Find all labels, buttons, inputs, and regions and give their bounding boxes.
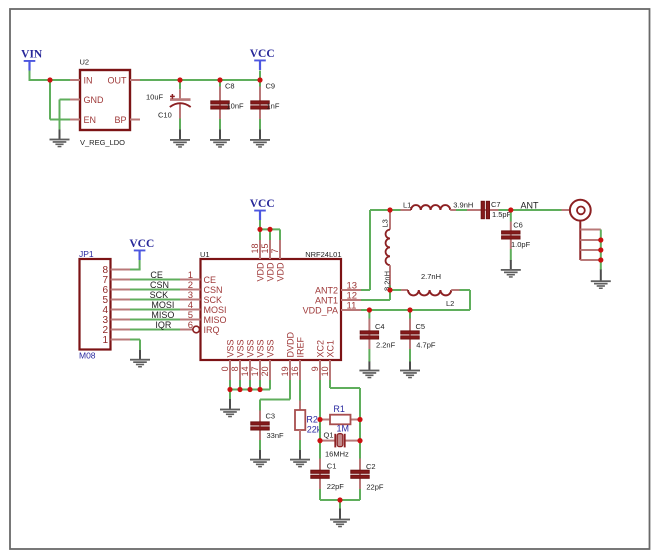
svg-text:R1: R1: [333, 404, 345, 414]
svg-text:CSN: CSN: [204, 285, 223, 295]
svg-text:C2: C2: [366, 462, 376, 471]
svg-text:C7: C7: [491, 200, 501, 209]
svg-text:17: 17: [250, 366, 260, 376]
svg-text:NRF24L01: NRF24L01: [305, 250, 341, 259]
wire IREF to R2: [299, 380, 301, 401]
node shield junction 3: [598, 257, 603, 262]
U1 top pin names VDD: [256, 262, 286, 282]
capacitor C6: [502, 210, 520, 261]
svg-text:3.9nH: 3.9nH: [453, 200, 473, 209]
node L1 L3 junction: [387, 207, 392, 212]
svg-text:IREF: IREF: [296, 336, 306, 357]
svg-text:11: 11: [347, 301, 357, 312]
node ANT junction: [508, 207, 513, 212]
node shield junction 2: [598, 247, 603, 252]
capacitor C10 polarized: [170, 80, 191, 130]
wire net CE: [130, 279, 180, 281]
supply VCC at U1: [250, 198, 275, 220]
svg-text:ANT2: ANT2: [315, 285, 338, 295]
svg-text:C3: C3: [266, 411, 276, 420]
svg-text:CE: CE: [204, 275, 217, 285]
wire VIN to U2.IN: [29, 71, 71, 81]
svg-text:VDD: VDD: [266, 262, 276, 282]
svg-text:MISO: MISO: [204, 315, 227, 325]
svg-text:R2: R2: [306, 415, 318, 425]
svg-text:VDD_PA: VDD_PA: [303, 305, 338, 315]
capacitor C7: [467, 201, 499, 218]
wire net MOSI: [130, 309, 180, 311]
svg-text:22pF: 22pF: [366, 483, 384, 492]
svg-text:22pF: 22pF: [327, 482, 345, 491]
supply VIN: [21, 48, 43, 70]
svg-text:7: 7: [270, 248, 280, 253]
svg-text:VCC: VCC: [250, 198, 275, 210]
svg-text:L3: L3: [381, 219, 390, 227]
capacitor C4: [360, 310, 378, 362]
U1 bottom pin numbers: [220, 366, 330, 376]
U1 right pin numbers: [347, 281, 358, 312]
node VDD_PA junction C5: [407, 307, 412, 312]
svg-text:VIN: VIN: [21, 48, 43, 60]
svg-text:EN: EN: [84, 115, 97, 125]
ground X1: [591, 270, 611, 290]
ground C9: [250, 130, 270, 148]
wire VSS bus: [230, 380, 270, 400]
node shield junction 1: [598, 237, 603, 242]
capacitor C8: [211, 80, 229, 130]
ground JP1: [130, 350, 150, 368]
svg-text:1nF: 1nF: [267, 102, 280, 111]
ground C6: [501, 260, 521, 278]
node VDD_PA junction C4: [367, 307, 372, 312]
U2 pin names: [84, 75, 128, 125]
svg-text:U1: U1: [200, 250, 210, 259]
svg-text:MISO: MISO: [151, 310, 174, 320]
svg-text:10nF: 10nF: [227, 102, 245, 111]
svg-text:9: 9: [310, 366, 320, 371]
svg-text:1M: 1M: [337, 423, 350, 433]
svg-text:14: 14: [240, 366, 250, 376]
wire VDD_PA net: [361, 309, 470, 311]
node Q1 right junction: [357, 438, 362, 443]
capacitor C2: [351, 459, 369, 501]
svg-text:GND: GND: [84, 95, 105, 105]
node Q1 left junction: [317, 438, 322, 443]
svg-text:33nF: 33nF: [267, 431, 285, 440]
ground C4: [359, 362, 379, 379]
svg-text:2.2nF: 2.2nF: [376, 341, 396, 350]
node VSS junction 260: [257, 387, 262, 392]
supply VCC top: [250, 48, 275, 70]
svg-text:CE: CE: [150, 270, 163, 280]
svg-text:19: 19: [280, 366, 290, 376]
svg-text:VCC: VCC: [250, 48, 275, 60]
U1 bottom pin names: [226, 331, 336, 357]
svg-text:VSS: VSS: [266, 339, 276, 357]
inductor L3: [386, 212, 390, 288]
svg-text:OUT: OUT: [108, 75, 128, 85]
JP1 pin numbers: [102, 265, 108, 346]
node VDD junction 18: [257, 227, 262, 232]
wire net IQR: [130, 329, 180, 331]
node OUT junction C9: [257, 77, 262, 82]
node VSS junction 240: [237, 387, 242, 392]
wire U2.GND to ground: [60, 100, 71, 131]
ground R2: [290, 450, 310, 467]
svg-text:C5: C5: [416, 322, 426, 331]
svg-text:C9: C9: [266, 82, 276, 91]
svg-text:IN: IN: [84, 75, 93, 85]
supply VCC at JP1: [129, 238, 154, 260]
svg-text:BP: BP: [114, 115, 126, 125]
svg-text:C4: C4: [375, 322, 385, 331]
svg-text:16MHz: 16MHz: [325, 450, 349, 459]
ground VSS: [220, 399, 240, 417]
svg-text:V_REG_LDO: V_REG_LDO: [80, 138, 125, 147]
wire VCC to VDD pins: [260, 220, 280, 240]
capacitor C1: [311, 459, 329, 501]
svg-text:ANT: ANT: [521, 201, 540, 211]
svg-text:16: 16: [290, 366, 300, 376]
wire X1 shield to ground: [600, 230, 602, 271]
wire VIN to U2.EN: [50, 80, 70, 120]
svg-text:VSS: VSS: [226, 339, 236, 357]
capacitor C5: [401, 310, 419, 362]
wire XC2 net: [319, 380, 321, 459]
svg-text:C10: C10: [158, 111, 172, 120]
ground C5: [400, 362, 420, 379]
wire C7 to ANT: [499, 209, 571, 211]
wire XC1 net: [330, 380, 360, 459]
svg-text:1.0pF: 1.0pF: [511, 240, 531, 249]
wire DVDD to C3: [260, 380, 290, 411]
inductor L2: [390, 290, 470, 310]
svg-text:10uF: 10uF: [146, 92, 164, 101]
svg-text:20: 20: [260, 366, 270, 376]
svg-text:JP1: JP1: [79, 249, 94, 259]
node ground junction: [337, 497, 342, 502]
node OUT junction C10: [177, 77, 182, 82]
wire ANT2 net: [361, 210, 390, 290]
svg-text:VDD: VDD: [276, 262, 286, 282]
svg-text:Q1: Q1: [324, 430, 334, 439]
svg-text:SCK: SCK: [150, 290, 169, 300]
svg-text:15: 15: [260, 243, 270, 253]
svg-text:XC1: XC1: [326, 340, 336, 358]
U1 left pin numbers: [188, 270, 193, 331]
svg-text:CSN: CSN: [150, 280, 169, 290]
wire JP1.8 to VCC: [130, 260, 141, 270]
U1 top pin numbers: [250, 243, 280, 253]
ground C3: [250, 450, 270, 467]
svg-text:VCC: VCC: [129, 238, 154, 250]
wire crystal caps to ground: [320, 500, 360, 509]
U1 right pin names: [303, 285, 338, 315]
svg-text:U2: U2: [80, 58, 90, 67]
wire ANT1 net: [361, 290, 390, 300]
svg-text:XC2: XC2: [316, 340, 326, 358]
svg-text:8: 8: [230, 366, 240, 371]
svg-text:0: 0: [220, 366, 230, 371]
ground crystal: [330, 509, 350, 528]
ground U2: [50, 130, 70, 148]
svg-text:IRQ: IRQ: [204, 325, 220, 335]
svg-text:VSS: VSS: [246, 339, 256, 357]
svg-text:C6: C6: [513, 220, 523, 229]
IC U1 nRF24L01: [180, 240, 361, 380]
svg-text:M08: M08: [79, 351, 96, 361]
svg-text:C1: C1: [327, 461, 337, 470]
svg-text:VSS: VSS: [236, 339, 246, 357]
voltage regulator U2: [70, 70, 140, 130]
wire net MISO: [130, 319, 180, 321]
wire net CSN: [130, 289, 180, 291]
svg-text:SCK: SCK: [204, 295, 223, 305]
node L3 L2 ANT1 junction: [387, 287, 392, 292]
svg-text:VSS: VSS: [256, 339, 266, 357]
resistor R2: [295, 401, 305, 452]
svg-text:10: 10: [320, 366, 330, 376]
U1 left pin names: [204, 275, 227, 335]
ground C10: [170, 130, 190, 148]
connector JP1: [80, 259, 131, 350]
ground C8: [210, 130, 230, 148]
node VIN junction: [47, 77, 52, 82]
capacitor C9: [251, 80, 269, 130]
svg-text:1: 1: [102, 335, 108, 346]
inductor L1: [390, 205, 467, 210]
wire U2.OUT to VCC rail: [140, 79, 260, 81]
antenna connector X1: [570, 200, 601, 260]
svg-text:2.7nH: 2.7nH: [421, 272, 441, 281]
node R1 right junction: [357, 417, 362, 422]
svg-text:ANT1: ANT1: [315, 295, 338, 305]
wire VCC stem: [259, 71, 261, 81]
svg-text:DVDD: DVDD: [286, 331, 296, 357]
node VDD junction 15: [267, 227, 272, 232]
resistor R1: [320, 415, 360, 425]
wire net SCK: [130, 299, 180, 301]
svg-text:IQR: IQR: [155, 320, 172, 330]
svg-text:L1: L1: [403, 200, 411, 209]
svg-text:MOSI: MOSI: [151, 300, 174, 310]
capacitor C3: [251, 411, 269, 452]
node VSS junction 230: [227, 387, 232, 392]
svg-text:L2: L2: [446, 299, 454, 308]
node R1 left junction: [317, 417, 322, 422]
node OUT junction C8: [217, 77, 222, 82]
svg-text:4.7pF: 4.7pF: [416, 341, 436, 350]
svg-text:VDD: VDD: [256, 262, 266, 282]
svg-text:C8: C8: [225, 82, 235, 91]
wire JP1.1 to ground: [130, 340, 140, 351]
node VSS junction 250: [247, 387, 252, 392]
svg-text:MOSI: MOSI: [204, 305, 227, 315]
svg-text:6: 6: [188, 320, 193, 331]
svg-text:18: 18: [250, 243, 260, 253]
crystal Q1 16MHz: [320, 434, 360, 448]
